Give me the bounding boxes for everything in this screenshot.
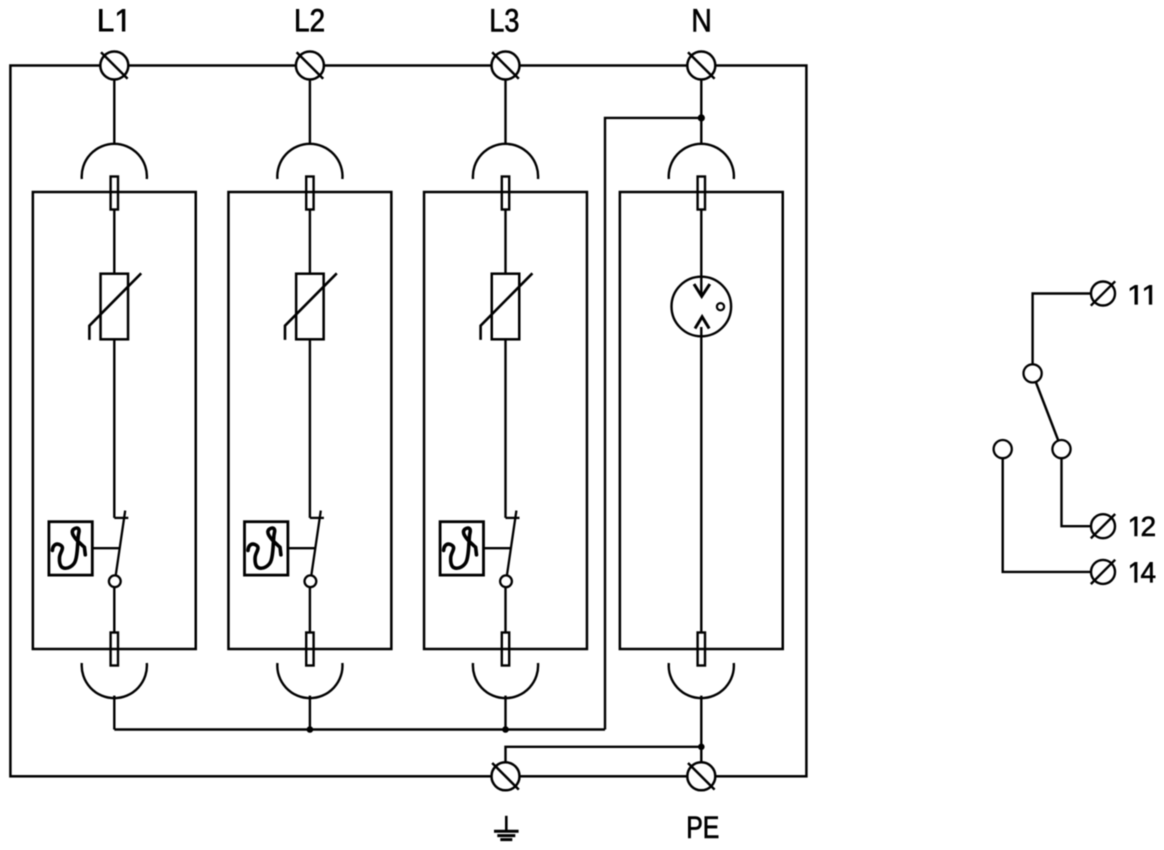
wire L1 terminal to plug connector — [113, 80, 115, 145]
wire varistor to disconnector L2 — [309, 339, 311, 518]
label L2 — [296, 9, 323, 31]
plug-in connector bottom L2 — [277, 633, 342, 699]
label PE — [688, 817, 718, 838]
thermal disconnect switch L1 — [109, 511, 128, 588]
wire disconnector to bottom plug L2 — [309, 587, 311, 632]
terminal L2 — [296, 52, 324, 80]
wire ground terminal to PE wire — [506, 747, 702, 763]
junction dot on N wire — [698, 114, 705, 121]
module enclosure N — [620, 192, 783, 649]
plug-in connector top L1 — [82, 144, 147, 210]
wire plug to varistor L3 — [504, 210, 506, 274]
contact circle lower right — [1052, 440, 1070, 458]
junction dot L3 bus — [502, 726, 509, 733]
module enclosure L2 — [228, 192, 391, 649]
terminal L3 — [492, 52, 520, 80]
wire L1 bottom to bus — [113, 696, 115, 730]
thermal disconnect switch L2 — [305, 511, 324, 588]
label L3 — [492, 9, 519, 32]
thermal sensing element L1 — [49, 522, 120, 575]
wire L3 bottom to bus — [504, 696, 506, 730]
wire plug to varistor L1 — [113, 210, 115, 274]
label N — [694, 9, 710, 31]
wire N bottom to PE terminal — [700, 696, 702, 763]
wire contact to terminal 14 — [1003, 458, 1091, 572]
varistor L3 — [481, 273, 533, 340]
wire varistor to disconnector L1 — [113, 339, 115, 518]
wire spark gap to bottom plug N — [700, 327, 702, 633]
terminal 11 — [1091, 281, 1115, 305]
spark gap N-PE — [672, 277, 732, 337]
plug-in connector top N — [669, 144, 734, 210]
contact pivot circle upper — [1024, 364, 1042, 382]
terminal 12 — [1091, 514, 1115, 538]
contact circle lower left — [994, 440, 1012, 458]
label L1 — [99, 9, 125, 31]
wire disconnector to bottom plug L1 — [113, 587, 115, 632]
label 14 — [1130, 562, 1155, 582]
wire contact to terminal 12 — [1062, 458, 1092, 526]
changeover switch blade — [1036, 382, 1059, 441]
terminal 14 — [1091, 560, 1115, 584]
plug-in connector top L3 — [473, 144, 538, 210]
plug-in connector bottom N — [669, 633, 734, 699]
plug-in connector bottom L1 — [82, 633, 147, 699]
wire L2 terminal to plug connector — [309, 80, 311, 145]
thermal sensing element L2 — [245, 522, 316, 575]
wire varistor to disconnector L3 — [504, 339, 506, 518]
wire plug to spark gap N — [700, 210, 702, 297]
plug-in connector bottom L3 — [473, 633, 538, 699]
junction dot PE wire — [698, 744, 705, 751]
module enclosure L1 — [33, 192, 196, 649]
thermal disconnect switch L3 — [500, 511, 519, 588]
enclosure outer box — [10, 66, 806, 777]
wire N tap to left drop — [605, 118, 701, 730]
junction dot L2 bus — [307, 726, 314, 733]
terminal L1 — [100, 52, 128, 80]
varistor L2 — [285, 273, 337, 340]
wire terminal 11 to contact — [1033, 294, 1091, 365]
thermal sensing element L3 — [440, 522, 511, 575]
wire L3 terminal to plug connector — [504, 80, 506, 145]
label 12 — [1130, 517, 1154, 536]
terminal ground — [492, 762, 520, 790]
ground symbol — [494, 816, 519, 840]
wire L2 bottom to bus — [309, 696, 311, 730]
bus wire varistor bottoms — [114, 728, 605, 730]
wire N terminal to plug connector — [700, 80, 702, 145]
module enclosure L3 — [424, 192, 587, 649]
terminal N — [687, 52, 715, 80]
plug-in connector top L2 — [277, 144, 342, 210]
varistor L1 — [89, 273, 141, 340]
label 11 — [1130, 285, 1152, 304]
terminal PE — [687, 762, 715, 790]
wire disconnector to bottom plug L3 — [504, 587, 506, 632]
wire plug to varistor L2 — [309, 210, 311, 274]
